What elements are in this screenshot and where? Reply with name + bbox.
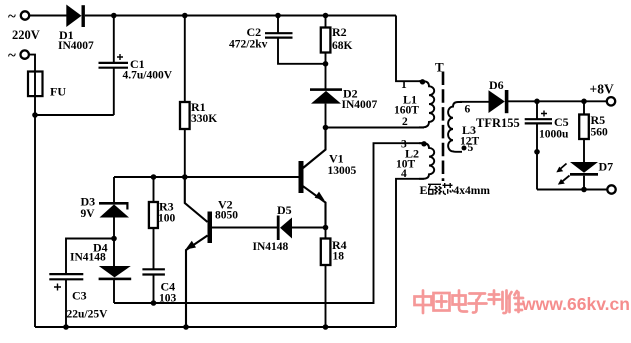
winding L2 [396, 139, 434, 181]
wire left column down [34, 115, 36, 327]
node junction R2 top [323, 13, 329, 19]
wire L3 pin6 to D6 [460, 101, 489, 103]
svg-text:2: 2 [402, 116, 408, 128]
terminal AC live [8, 9, 29, 25]
winding L1 [394, 79, 434, 128]
svg-text:FU: FU [50, 85, 66, 99]
diode D4 [70, 239, 131, 304]
svg-text:IN4007: IN4007 [58, 40, 94, 52]
svg-text:472/2kv: 472/2kv [229, 39, 268, 51]
svg-text:100: 100 [158, 213, 176, 225]
transformer core dashed [442, 72, 445, 182]
svg-text:4.7u/400V: 4.7u/400V [123, 70, 173, 82]
svg-text:1: 1 [401, 79, 407, 91]
node junction V1 collector [323, 125, 329, 131]
svg-text:8050: 8050 [215, 210, 238, 222]
terminal +8V [590, 82, 616, 106]
svg-text:R1: R1 [191, 100, 206, 114]
diode D2 [310, 64, 378, 128]
resistor R3 [149, 177, 176, 269]
node junction D7 bottom [581, 187, 587, 193]
diode D1 [58, 5, 94, 53]
capacitor C3 [49, 239, 114, 328]
diode D5 [253, 203, 326, 253]
label E core [420, 183, 491, 197]
capacitor C5 [525, 101, 569, 189]
svg-text:R3: R3 [159, 200, 174, 214]
wire pin4 to ground rail [396, 179, 424, 327]
capacitor C2 [229, 16, 326, 64]
node junction C3 tee [111, 236, 117, 242]
svg-text:5: 5 [468, 142, 474, 154]
svg-text:22u/25V: 22u/25V [67, 309, 109, 321]
fuse FU [28, 55, 66, 116]
node junction C4 bottom [151, 300, 157, 306]
svg-text:IN4007: IN4007 [342, 99, 378, 111]
svg-text:+8V: +8V [590, 82, 614, 97]
svg-text:1000u: 1000u [539, 129, 569, 141]
svg-text:C5: C5 [554, 115, 569, 129]
node junction L3 pin5 tee [534, 149, 540, 155]
svg-text:TFR155: TFR155 [476, 116, 520, 130]
winding L3 [448, 102, 479, 154]
transistor V1 [299, 128, 357, 228]
svg-text:330K: 330K [191, 113, 217, 125]
node junction R4 ground [323, 324, 329, 330]
diode D6 [476, 78, 520, 130]
capacitor C4 [142, 269, 176, 304]
terminal output negative [607, 185, 615, 193]
svg-text:6: 6 [465, 104, 471, 116]
node junction V2 emitter ground [183, 324, 189, 330]
svg-text:220V: 220V [12, 28, 40, 42]
svg-text:560: 560 [591, 127, 609, 139]
wire pin1 feed from top rail [396, 16, 421, 82]
resistor R4 [321, 228, 347, 328]
node junction C5 top [534, 99, 540, 105]
terminal AC neutral [8, 48, 29, 64]
node junction R5 top [581, 99, 587, 105]
resistor R5 [579, 101, 608, 162]
transistor V2 [185, 177, 238, 327]
svg-text:R2: R2 [332, 25, 347, 39]
wire secondary ground rail [537, 189, 607, 191]
svg-text:IN4148: IN4148 [253, 241, 289, 253]
svg-text:www.66kv.cn: www.66kv.cn [521, 294, 630, 314]
svg-text:C4: C4 [161, 280, 176, 294]
wire C1 bottom to fuse column [35, 114, 114, 116]
svg-text:18: 18 [333, 251, 345, 263]
wire top rail [85, 15, 396, 17]
node junction C2 top [275, 13, 281, 19]
resistor R1 [180, 16, 217, 178]
node junction D1-C1 [111, 13, 117, 19]
wire top rail left [29, 15, 67, 17]
svg-text:D6: D6 [489, 78, 504, 92]
wire secondary positive rail [508, 100, 607, 102]
svg-text:V1: V1 [329, 152, 344, 166]
LED D7 [556, 160, 613, 190]
svg-text:~: ~ [8, 48, 16, 64]
svg-text:C3: C3 [72, 289, 87, 303]
wire aux rail (pin3 net) [114, 143, 424, 303]
node junction V1 emitter / D5 / R4 [323, 225, 329, 231]
node junction fuse column [32, 112, 38, 118]
node junction R1 bottom / V2 collector [182, 174, 188, 180]
svg-text:9V: 9V [81, 208, 96, 220]
wire L1 pin2 [326, 127, 425, 129]
wire V2 base to D5 [212, 227, 277, 229]
svg-text:13005: 13005 [328, 165, 357, 177]
node junction R1 top [182, 13, 188, 19]
svg-text:E: E [420, 183, 428, 197]
svg-text:IN4148: IN4148 [70, 252, 106, 264]
watermark [415, 291, 524, 314]
zener D3 [81, 177, 130, 239]
svg-text:160T: 160T [394, 105, 419, 117]
svg-text:68K: 68K [332, 40, 353, 52]
svg-text:103: 103 [159, 293, 177, 305]
resistor R2 [321, 16, 353, 65]
wire primary ground rail [35, 326, 396, 328]
svg-text:~: ~ [8, 9, 16, 25]
wire V1 base rail [114, 176, 299, 178]
svg-text:D5: D5 [277, 203, 292, 217]
svg-text:D3: D3 [81, 195, 96, 209]
capacitor C1 [99, 16, 173, 116]
svg-text:C2: C2 [247, 25, 262, 39]
svg-text:R5: R5 [591, 113, 606, 127]
node junction R3 top [151, 174, 157, 180]
svg-text:D7: D7 [599, 160, 614, 174]
svg-text:4x4mm: 4x4mm [454, 185, 491, 197]
node junction C2-R2-D2 [323, 61, 329, 67]
node junction C3 ground [63, 324, 69, 330]
